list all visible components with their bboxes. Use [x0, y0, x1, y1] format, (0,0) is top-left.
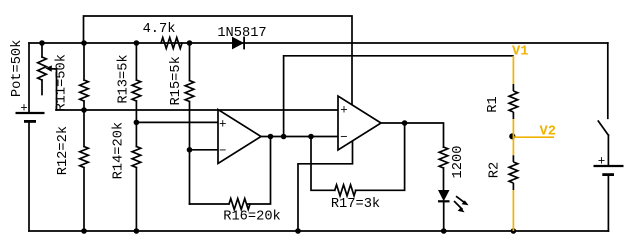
svg-text:+: + [20, 102, 28, 116]
svg-text:R2: R2 [488, 162, 503, 178]
svg-text:R14=20k: R14=20k [111, 122, 126, 180]
svg-text:R1: R1 [486, 96, 501, 112]
svg-text:−: − [340, 131, 348, 145]
svg-text:1N5817: 1N5817 [217, 26, 266, 41]
svg-text:+: + [219, 117, 227, 131]
svg-text:+: + [598, 155, 606, 169]
svg-text:+: + [340, 104, 348, 118]
svg-text:R15=5k: R15=5k [169, 56, 184, 105]
svg-text:V1: V1 [512, 45, 528, 60]
svg-text:R16=20k: R16=20k [223, 209, 281, 224]
svg-text:1200: 1200 [451, 146, 466, 179]
svg-text:R13=5k: R13=5k [116, 54, 131, 103]
svg-text:R11=50k: R11=50k [55, 54, 70, 112]
svg-text:R17=3k: R17=3k [331, 197, 380, 212]
svg-text:R12=2k: R12=2k [56, 126, 71, 175]
svg-text:−: − [219, 144, 227, 158]
svg-text:V2: V2 [540, 125, 556, 140]
svg-text:4.7k: 4.7k [143, 22, 176, 37]
svg-text:Pot=50k: Pot=50k [10, 40, 25, 98]
